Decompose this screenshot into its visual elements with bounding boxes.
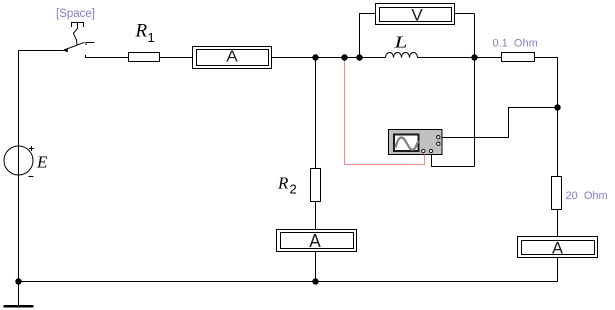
switch S1 lower throw contact bbox=[86, 55, 129, 58]
wire: bottom rail bbox=[19, 281, 558, 283]
wire: scope channel input to node (557,107) bbox=[442, 108, 558, 138]
oscilloscope XSC1 bottom terminals bbox=[422, 149, 425, 152]
node at (474,57) bbox=[471, 54, 477, 60]
switch S1 actuator zigzag bbox=[73, 29, 77, 45]
wire: red probe from node (344,57) to scope bottom-left terminal bbox=[345, 58, 425, 165]
wire: R2 to ammeter U3 bbox=[315, 202, 317, 230]
ground symbol bbox=[4, 282, 34, 307]
svg-text:0.1 Ohm: 0.1 Ohm bbox=[493, 37, 538, 49]
wire: ammeter U3 to bottom rail bbox=[315, 252, 317, 282]
svg-text:A: A bbox=[552, 240, 563, 258]
svg-text:E: E bbox=[36, 153, 48, 172]
resistor 20 Ohm body (vertical) bbox=[552, 177, 562, 210]
node at (344,57) bbox=[341, 54, 347, 60]
voltmeter U2 bbox=[376, 4, 455, 25]
wire: R1 to ammeter U1 bbox=[160, 57, 193, 59]
voltage source E circle bbox=[4, 146, 33, 175]
wire: inductor L to resistor 0.1 Ohm bbox=[418, 57, 502, 59]
switch S1 upper throw contact bbox=[86, 43, 95, 46]
node at (557,107) bbox=[554, 104, 560, 110]
ammeter U4 (bottom right) bbox=[518, 237, 598, 258]
oscilloscope XSC1 right terminals bbox=[437, 136, 440, 139]
voltmeter U2 right wire bbox=[455, 13, 475, 15]
resistor R2 body (vertical) bbox=[311, 169, 321, 202]
wire: left rail vertical through source E bbox=[18, 51, 20, 282]
oscilloscope XSC1 sine trace bbox=[396, 138, 419, 150]
wire: vertical through node at (474,57) down to scope ground run bbox=[474, 14, 476, 167]
wire: R2 branch from node (315,57) bbox=[315, 58, 317, 169]
voltage source E minus mark bbox=[29, 176, 34, 178]
wire: top-left horizontal from left rail to switch input bbox=[19, 50, 64, 52]
node at (315,281) bbox=[312, 278, 318, 284]
oscilloscope XSC1 body bbox=[389, 130, 443, 155]
inductor L bumps bbox=[386, 53, 418, 58]
svg-text:1: 1 bbox=[148, 30, 155, 45]
svg-text:A: A bbox=[226, 49, 238, 66]
resistor R1 body bbox=[129, 53, 160, 62]
wire: ammeter U1 to inductor L (through nodes) bbox=[272, 57, 386, 59]
resistor 0.1 Ohm body bbox=[502, 53, 535, 62]
wire: scope ground stub down bbox=[432, 155, 475, 167]
svg-text:R: R bbox=[135, 21, 148, 42]
svg-text:A: A bbox=[309, 231, 321, 251]
voltmeter U2 left wire bbox=[360, 14, 376, 58]
wire: 20 Ohm to ammeter U4 bbox=[557, 210, 559, 237]
node at (18,281) bbox=[15, 278, 21, 284]
ammeter U3 (bottom middle) bbox=[277, 230, 357, 252]
node at (315,57) bbox=[312, 54, 318, 60]
svg-text:R: R bbox=[277, 174, 289, 193]
svg-text:V: V bbox=[411, 6, 423, 25]
svg-text:[Space]: [Space] bbox=[56, 8, 95, 20]
node at (359,57) bbox=[356, 54, 362, 60]
svg-text:2: 2 bbox=[290, 182, 297, 197]
svg-text:20 Ohm: 20 Ohm bbox=[566, 190, 608, 202]
svg-text:L: L bbox=[393, 33, 407, 52]
switch S1 blade arrow bbox=[63, 48, 68, 52]
oscilloscope XSC1 screen bbox=[394, 135, 419, 152]
wire: ammeter U4 to bottom rail bbox=[557, 258, 559, 282]
voltage source E plus mark bbox=[29, 146, 34, 151]
switch S1 actuator comb bbox=[72, 23, 84, 28]
switch S1 blade bbox=[64, 42, 85, 50]
wire: 0.1 Ohm to right rail corner bbox=[535, 58, 558, 177]
ammeter U1 (top) bbox=[193, 47, 272, 69]
